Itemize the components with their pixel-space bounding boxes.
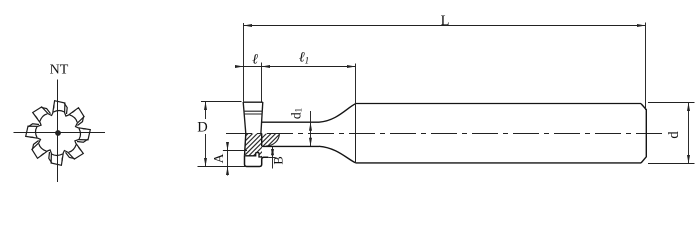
L left extension line bbox=[243, 23, 245, 102]
arrowhead D top bbox=[204, 102, 207, 111]
arrowhead B bottom bbox=[271, 149, 274, 158]
arrowhead d1 top bbox=[309, 122, 312, 131]
svg-text:d: d bbox=[666, 131, 682, 139]
shank chamfered end bbox=[641, 104, 646, 163]
staggered tooth step outline bbox=[245, 153, 262, 157]
cutter body outline (front) bbox=[26, 101, 91, 166]
l right extension line bbox=[261, 63, 263, 102]
B bottom extension line bbox=[268, 157, 275, 159]
lower tooth outline bbox=[245, 156, 269, 167]
arrowhead L right bbox=[637, 24, 646, 27]
D/A bottom extension line bbox=[198, 166, 247, 168]
B dimension line bbox=[272, 147, 274, 169]
cutter teeth flags (front) bbox=[26, 101, 91, 166]
d1 dimension line bbox=[310, 111, 312, 146]
head right edge lower bbox=[261, 134, 263, 147]
arrowhead A top bbox=[226, 142, 229, 151]
label D bbox=[197, 119, 210, 134]
d top extension line bbox=[648, 102, 695, 104]
arrowhead l1 left bbox=[262, 65, 271, 68]
center hole dot bbox=[55, 130, 61, 136]
svg-text:ℓ: ℓ bbox=[252, 53, 258, 68]
front view vertical centerline bbox=[57, 80, 59, 183]
flare tangent line bbox=[355, 104, 357, 163]
svg-text:NT: NT bbox=[50, 63, 69, 78]
arrowhead D bottom bbox=[204, 158, 207, 167]
shank top line bbox=[356, 103, 642, 105]
section boundary: fillet arc bbox=[266, 134, 280, 146]
l and l1 dimension line bbox=[235, 66, 355, 68]
shank bottom line bbox=[356, 162, 642, 164]
d dimension line bbox=[688, 103, 690, 164]
neck d1 bottom line bbox=[262, 145, 319, 147]
A dimension line bbox=[227, 144, 229, 176]
svg-text:B: B bbox=[271, 156, 285, 164]
arrowhead d top bbox=[687, 103, 690, 112]
svg-text:D: D bbox=[197, 120, 207, 136]
arrowhead d1 bottom bbox=[309, 138, 312, 147]
side view centerline bbox=[226, 133, 664, 135]
flare to shank bottom bbox=[319, 146, 356, 163]
staggered far-side tooth edges bbox=[64, 103, 67, 114]
arrowhead B top bbox=[271, 147, 274, 156]
l1 right extension line bbox=[355, 64, 357, 104]
arrowhead d bottom bbox=[687, 155, 690, 164]
head left edge lower bbox=[245, 134, 246, 156]
front view horizontal centerline bbox=[14, 132, 106, 134]
d bottom extension line bbox=[648, 163, 695, 165]
arrowhead l1 right bbox=[347, 65, 356, 68]
svg-text:L: L bbox=[441, 13, 450, 29]
arrowhead A bottom bbox=[226, 167, 229, 176]
neck d1 top line bbox=[262, 121, 319, 123]
L right extension line bbox=[645, 23, 647, 111]
A top extension line bbox=[223, 150, 247, 152]
L dimension line bbox=[244, 25, 646, 27]
svg-text:A: A bbox=[211, 153, 226, 163]
arrowhead l bbox=[235, 65, 244, 68]
cutter head outline upper half bbox=[243, 102, 263, 134]
arrowhead L left bbox=[244, 24, 253, 27]
D dimension line bbox=[205, 102, 207, 167]
flare to shank top bbox=[319, 104, 356, 122]
tooth land lines on head bbox=[244, 111, 263, 114]
D top extension line bbox=[201, 101, 242, 103]
